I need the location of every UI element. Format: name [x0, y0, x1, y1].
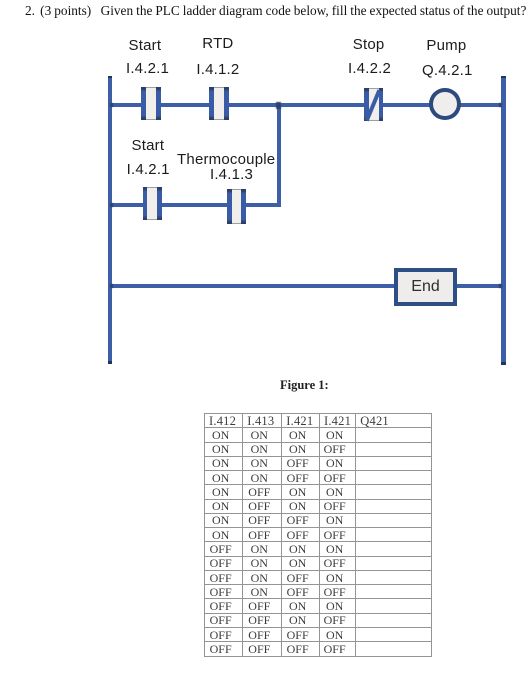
label I.4.2.1 (rung 2) [127, 162, 170, 177]
rung 3 (End) wire [110, 284, 502, 288]
label Stop [353, 37, 385, 52]
rung3 right end cap [499, 284, 502, 288]
label Q.4.2.1 [422, 63, 473, 78]
rung1 right end cap [499, 103, 502, 107]
dark end cap, left rail bottom [108, 361, 112, 364]
label I.4.2.1 [126, 61, 169, 76]
End block [394, 268, 457, 306]
label RTD [202, 36, 233, 51]
rung3 left end cap [110, 284, 113, 288]
problem statement text [25, 3, 530, 19]
label I.4.2.2 [348, 61, 391, 76]
label Start (rung 2) [132, 138, 165, 153]
contact Stop I.4.2.2 (rung 1, NC) [364, 88, 383, 121]
contact RTD I.4.1.2 (rung 1, NO) [209, 87, 229, 120]
NC slash of Stop contact [364, 89, 381, 121]
contact Start I.4.2.1 (rung 2, NO) [143, 187, 163, 221]
truth table [204, 413, 432, 657]
dark junction cap at rung1/branch T [276, 102, 281, 109]
label Pump [426, 38, 466, 53]
label I.4.1.3 [210, 167, 253, 182]
left power rail [108, 76, 112, 364]
dark end cap, right rail top [501, 76, 506, 79]
dark end cap, left rail top [108, 76, 112, 79]
rung 1 wire [110, 103, 502, 107]
rung2 left end cap [110, 203, 113, 207]
rung1 left end cap [110, 103, 113, 107]
rung 2 wire [110, 203, 281, 207]
label Thermocouple [177, 152, 275, 167]
label Start [129, 38, 162, 53]
label I.4.1.2 [196, 62, 239, 77]
dark end cap, right rail bottom [501, 362, 506, 365]
figure caption [280, 378, 329, 393]
contact Thermocouple I.4.1.3 (rung 2, NO) [227, 189, 246, 224]
contact Start I.4.2.1 (rung 1, NO) [141, 87, 161, 120]
right power rail [501, 76, 506, 365]
coil Pump Q.4.2.1 [429, 88, 461, 120]
junction vertical wire (rung2 to rung1) [277, 103, 282, 207]
